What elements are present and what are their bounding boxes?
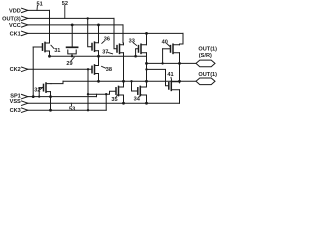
junction T33 gate on node29 <box>134 55 137 58</box>
wire T32 gate down to SP1 <box>38 88 40 97</box>
leader for label 38 <box>102 66 106 68</box>
svg-text:37: 37 <box>102 50 108 56</box>
junction T36 source on node29 <box>97 55 100 58</box>
svg-text:29: 29 <box>66 61 72 67</box>
wire T40 gate down to S/R line <box>162 49 164 64</box>
svg-text:VSS: VSS <box>10 99 21 105</box>
wire T34 drain riser x146.5 <box>146 63 148 86</box>
junction 41-gate branch <box>145 68 147 70</box>
wire gate feed line y94.2 to T35 gate <box>88 91 116 94</box>
svg-text:40: 40 <box>162 39 168 45</box>
junction T38 source on OUT line <box>97 80 100 83</box>
wire SP1 rail y96.6 <box>28 96 97 98</box>
transistor T31 <box>42 44 44 50</box>
junction T34 drain on OUT line <box>145 80 148 83</box>
wire T34 source to VSS <box>146 95 148 103</box>
junction CK2 branch on gate feed line <box>87 93 89 95</box>
transistor T40 <box>170 46 172 52</box>
junction T31 gate vert on SP1 <box>32 95 35 98</box>
wire VCC rail y24.9 <box>28 24 123 26</box>
wire CK2 branch down to CK3 <box>87 69 89 110</box>
wire T33 source down to S/R line <box>146 53 148 64</box>
transistor T33 <box>138 46 140 52</box>
svg-text:35: 35 <box>111 97 117 103</box>
leader for label 52 <box>64 5 66 18</box>
capacitor C bottom cup plate <box>68 50 76 54</box>
transistor T36 <box>91 44 93 50</box>
svg-text:34: 34 <box>134 97 141 103</box>
wire OUT(3) rail y18.4 <box>28 17 114 19</box>
wire VDD rail y10.4 <box>28 9 50 11</box>
node CK3 input connector <box>22 108 28 112</box>
node CK2 input connector <box>22 67 28 71</box>
svg-text:(S/R): (S/R) <box>199 53 212 59</box>
wire T33 gate lead from node29 <box>136 49 139 56</box>
leader for label 40 <box>167 44 170 47</box>
wire VSS rail y103.2 <box>28 102 180 104</box>
wire T40 drain jog to CK1 drop <box>180 43 184 46</box>
svg-text:OUT(1): OUT(1) <box>198 72 217 78</box>
junction T40 source on S/R line <box>178 62 181 65</box>
junction T41 drain on OUT line <box>178 80 181 83</box>
svg-text:VDD: VDD <box>9 8 21 14</box>
leader for label 35 <box>116 95 117 97</box>
wire T32 drain jog up to OUT line <box>51 81 63 83</box>
wire CK1 branch to T33 drain <box>146 33 148 44</box>
junction T35 source on VSS <box>122 102 125 105</box>
transistor T35 <box>115 88 117 94</box>
svg-text:CK2: CK2 <box>10 67 21 73</box>
junction T32 source on CK3 <box>49 109 52 112</box>
svg-text:CK3: CK3 <box>10 108 21 114</box>
junction CK2 branch on CK3 <box>87 109 89 111</box>
wire T37 source down to out line <box>123 53 125 82</box>
junction T36 drain on VCC <box>97 24 100 27</box>
transistor T34 <box>137 88 139 94</box>
wire CK3 rise to T35 gate wire <box>105 94 107 110</box>
wire T35 drain up to OUT line <box>123 81 125 87</box>
junction T32 source on SP1 <box>49 95 52 98</box>
svg-text:VCC: VCC <box>9 23 21 29</box>
junction T36 gate on OUT3 <box>87 17 89 19</box>
wire T34 gate up to OUT line <box>131 81 133 91</box>
wire T31 source to node29 <box>49 51 51 56</box>
wire T32 source down to CK3 <box>50 92 52 111</box>
leader for label 34 <box>139 95 141 97</box>
wire OUT(1) line y81.3 <box>63 80 196 82</box>
wire capacitor stub to node29 <box>71 54 73 56</box>
svg-text:38: 38 <box>106 67 112 73</box>
wire OUT(3) drop to T37 gate <box>114 18 117 48</box>
svg-text:33: 33 <box>129 39 135 45</box>
wire T34 gate lead <box>132 90 138 92</box>
leader for label 31 <box>51 45 54 48</box>
junction capacitor stub on node29 <box>71 55 73 57</box>
wire VCC drop to T37 drain <box>122 25 124 43</box>
node OUT(3) input connector <box>22 16 28 20</box>
wire SP1 jog up <box>96 94 98 96</box>
junction on S/R line at x146.5 <box>145 62 148 65</box>
svg-text:OUT(1): OUT(1) <box>198 46 217 52</box>
leader for label 32 <box>40 87 43 89</box>
node CK1 input connector <box>22 31 28 35</box>
wire CK3 rail y110.2 <box>28 109 106 111</box>
wire CK1 rail y33.4 <box>28 32 183 34</box>
leader for label 37 <box>108 52 113 53</box>
svg-text:51: 51 <box>37 1 43 7</box>
junction T40 gate on S/R line <box>161 62 163 64</box>
leader for label 36 <box>102 41 105 43</box>
wire VCC drop to T36 drain <box>98 25 100 43</box>
svg-text:CK1: CK1 <box>10 31 21 37</box>
wire T35 source to VSS <box>123 95 125 103</box>
junction T37 source on OUT line <box>122 80 125 83</box>
svg-text:41: 41 <box>167 72 173 78</box>
wire T40 source down through T41 drain <box>179 53 181 83</box>
leader for label 33 <box>133 43 136 46</box>
junction CK2 branch on T38 gate wire <box>87 68 89 70</box>
wire T37 drain stub <box>122 43 125 45</box>
leader for label 51 <box>36 6 38 11</box>
transistor T41 <box>168 83 170 89</box>
wire T40 gate lead <box>163 48 171 50</box>
wire T38 drain up to node29 <box>98 56 100 65</box>
junction T34 gate on OUT line <box>130 80 132 82</box>
wire T41 source to VSS <box>179 90 181 103</box>
svg-text:53: 53 <box>69 107 75 113</box>
wire 41-gate branch y69.4 <box>147 69 169 85</box>
wire OUT(3) branch to T36 gate <box>88 18 92 46</box>
svg-text:OUT(3): OUT(3) <box>2 16 21 22</box>
junction CK3 riser on gate wire <box>105 93 107 95</box>
node VSS input connector <box>22 101 28 105</box>
leader for label 53 <box>70 103 72 106</box>
junction T32 gate on SP1 <box>38 96 40 98</box>
transistor T37 <box>116 46 118 52</box>
capacitor C top plate <box>67 46 78 48</box>
junction node29 at T31 source <box>48 55 51 58</box>
output connector OUT(1)(S/R) hexagon <box>196 60 215 67</box>
node SP1 input connector <box>22 94 28 98</box>
node VCC input connector <box>22 23 28 27</box>
wire CK1 drop to T40 drain <box>182 33 184 44</box>
svg-text:31: 31 <box>54 48 60 54</box>
transistor T38 <box>91 66 93 72</box>
wire T31 gate lead <box>33 46 42 48</box>
svg-text:32: 32 <box>34 88 40 94</box>
wire T32 gate lead <box>39 87 43 89</box>
output connector OUT(1) hexagon <box>196 78 215 85</box>
wire T31 gate down to SP1 <box>32 47 34 97</box>
node VDD input connector <box>22 8 28 12</box>
wire T36 source to node29 <box>98 51 100 57</box>
svg-text:36: 36 <box>104 37 110 43</box>
leader for label 41 <box>170 77 173 80</box>
svg-text:52: 52 <box>62 1 68 7</box>
wire CK2 rail to T38 gate <box>28 68 92 70</box>
wire S/R output line y63.4 <box>147 62 197 64</box>
wire VDD drop to T31 drain <box>49 10 51 43</box>
junction T33 drain on CK1 <box>145 32 148 35</box>
transistor T32 <box>43 84 45 90</box>
leader for label 29 <box>71 57 74 61</box>
wire capacitor top lead from VCC <box>71 25 73 47</box>
wire node29 bootstrap rail y56.2 <box>50 55 147 57</box>
junction T34 source on VSS <box>145 102 148 105</box>
wire T38 source down to out line <box>98 74 100 82</box>
junction capacitor on VCC <box>71 24 74 27</box>
